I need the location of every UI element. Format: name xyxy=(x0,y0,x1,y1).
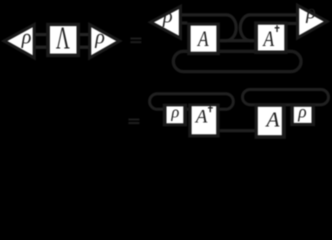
svg-text:ρ: ρ xyxy=(162,5,173,27)
svg-text:A: A xyxy=(264,107,280,131)
svg-text:ρ: ρ xyxy=(170,103,179,122)
svg-text:ρ: ρ xyxy=(21,27,32,49)
svg-text:A: A xyxy=(194,107,208,128)
svg-text:ρ: ρ xyxy=(305,2,316,24)
svg-text:A: A xyxy=(262,27,275,51)
svg-text:A: A xyxy=(196,27,209,51)
svg-text:ρ: ρ xyxy=(297,101,306,121)
svg-text:Λ: Λ xyxy=(56,21,70,56)
svg-text:ρ: ρ xyxy=(94,26,105,48)
